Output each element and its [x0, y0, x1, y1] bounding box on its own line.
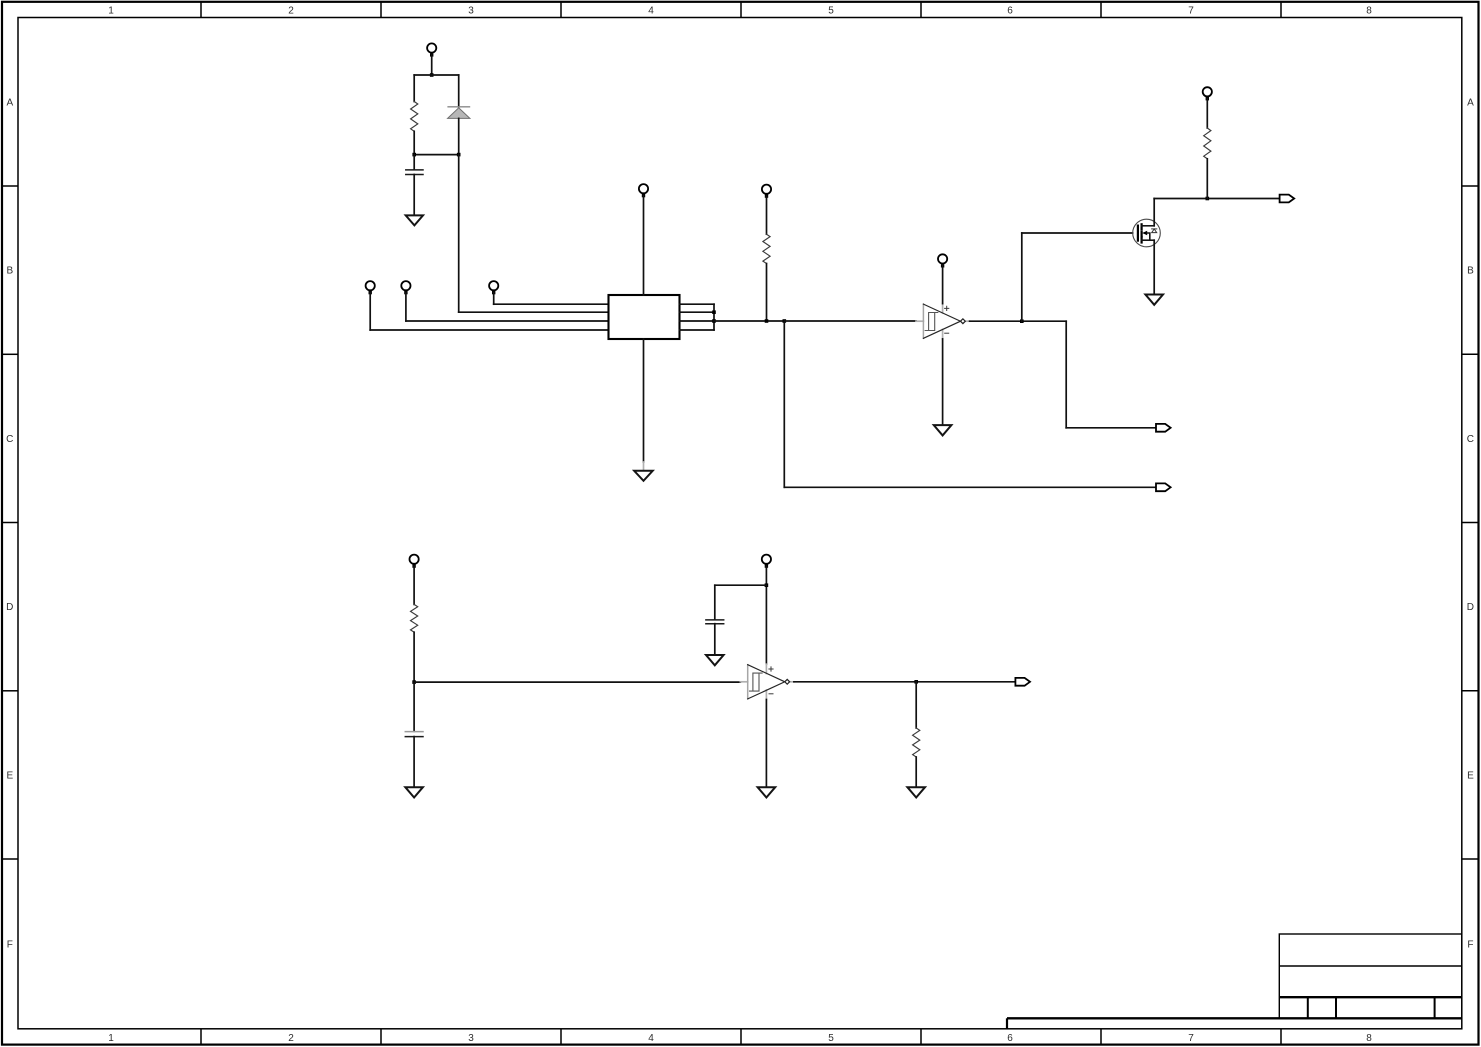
svg-text:8: 8: [1366, 1033, 1372, 1044]
wire P1 down: [431, 55, 433, 75]
node junction top: [430, 73, 434, 77]
zone row tick marks right: [1462, 186, 1479, 859]
wire divider to U3 input: [414, 681, 740, 683]
port P3 (second input): [401, 281, 410, 294]
svg-text:A: A: [6, 97, 13, 108]
svg-text:C: C: [1467, 434, 1474, 445]
diode D1 (zener, anode up): [448, 107, 470, 119]
wire to capacitor C1: [413, 155, 415, 170]
wire U3 output: [794, 681, 1016, 683]
wire P5 to U1 top pin: [643, 196, 645, 296]
svg-text:D: D: [6, 602, 13, 613]
wire P3 down: [405, 293, 407, 322]
wire P7 down: [1206, 99, 1208, 128]
wire U2 output: [970, 320, 1067, 322]
wire P2 down: [369, 293, 371, 331]
pin U3 V+: [765, 664, 767, 673]
U3 hysteresis symbol: [750, 673, 763, 691]
svg-text:4: 4: [648, 1033, 654, 1044]
port P4 (third input): [489, 281, 498, 294]
port P1 (top left supply): [427, 43, 436, 56]
resistor R1: [411, 102, 418, 132]
zone column labels bottom: [108, 1033, 1372, 1044]
pin U3 input: [740, 681, 747, 683]
node junction output load: [914, 680, 918, 684]
resistor R2 (pull-up): [1204, 128, 1211, 159]
wire decouple down: [714, 585, 716, 619]
title block: [1007, 934, 1462, 1029]
zone column tick marks bottom: [201, 1029, 1281, 1045]
pin U2 V+: [942, 304, 944, 313]
svg-text:1: 1: [108, 1033, 114, 1044]
pin U3 V-: [765, 690, 767, 699]
wire P10 down: [766, 196, 768, 234]
output port POUT4: [1015, 678, 1030, 686]
svg-text:5: 5: [828, 5, 834, 16]
wire R3 to node: [413, 632, 415, 682]
output port POUT2: [1156, 424, 1171, 432]
pin U3 output stub: [790, 681, 794, 683]
output port POUT1: [1156, 483, 1171, 491]
node junction decouple: [765, 583, 769, 587]
svg-text:6: 6: [1007, 5, 1013, 16]
U3 minus label: [769, 693, 773, 695]
U3 triangle left edge: [747, 665, 749, 699]
pin U2 input: [916, 320, 923, 322]
zone row tick marks left: [2, 186, 18, 859]
node junction left: [412, 153, 416, 157]
node junction right: [457, 153, 461, 157]
svg-text:1: 1: [108, 5, 114, 16]
wire P3 to U1 pin 3: [406, 320, 609, 322]
wire down to output level: [1065, 321, 1067, 428]
wire top horizontal: [414, 74, 459, 76]
wire to comparator input: [784, 320, 916, 322]
wire R2 down to drain net: [1206, 159, 1208, 199]
zone row labels left: [6, 97, 13, 950]
port P2 (leftmost input): [366, 281, 375, 294]
svg-text:2: 2: [288, 1033, 294, 1044]
Q1 gate bar: [1137, 226, 1139, 241]
U2 output diamond: [961, 319, 966, 324]
U2 triangle left edge: [922, 304, 924, 338]
svg-text:7: 7: [1188, 1033, 1194, 1044]
wire U1 right pin 1: [680, 303, 715, 305]
wire diode branch to U1 pin 2: [459, 311, 609, 313]
port P8 (bottom divider supply): [410, 555, 419, 568]
ground GND8: [907, 787, 925, 797]
wire U1 right pin 2: [680, 311, 715, 313]
Q1 body link: [1147, 233, 1150, 240]
wire left branch upper: [413, 75, 415, 102]
svg-text:4: 4: [648, 5, 654, 16]
U2 minus label: [945, 332, 949, 334]
Q1 body diode: [1152, 229, 1157, 233]
svg-text:C: C: [6, 434, 13, 445]
Q1 body circle: [1133, 219, 1161, 247]
wire to Q1 gate: [1022, 232, 1133, 234]
wire U1 right pin 4: [680, 329, 715, 331]
node junction pull-up: [765, 319, 769, 323]
wire U1 right pin 3: [680, 320, 715, 322]
capacitor C2: [405, 732, 423, 737]
capacitor C3: [706, 620, 724, 624]
Q1 source link: [1141, 239, 1154, 241]
wire right branch lower: [458, 118, 460, 154]
pin U2 output stub: [965, 320, 969, 322]
wire R5 down to net: [766, 264, 768, 322]
port P9 (U3 supply): [762, 555, 771, 568]
node junction tie B: [712, 319, 716, 323]
U3 plus label: [769, 667, 773, 671]
node junction tie A: [712, 310, 716, 314]
op-amp U3: [740, 664, 794, 699]
IC U1: [609, 295, 680, 339]
wire left branch lower: [413, 131, 415, 154]
resistor R4 (load): [913, 728, 920, 757]
wire decouple horizontal: [715, 584, 767, 586]
capacitor C1: [406, 170, 423, 175]
wire C1 to ground: [413, 175, 415, 216]
svg-text:5: 5: [828, 1033, 834, 1044]
wire Q1 drain up: [1153, 199, 1155, 226]
svg-text:E: E: [6, 770, 13, 781]
svg-text:A: A: [1467, 97, 1474, 108]
zone column tick marks top: [201, 2, 1281, 18]
wire right tie vertical: [713, 304, 715, 330]
U2 triangle body: [923, 304, 960, 338]
wire R4 to ground: [915, 757, 917, 787]
svg-text:F: F: [1467, 939, 1473, 950]
wire drain level horizontal: [1154, 198, 1279, 200]
svg-text:E: E: [1467, 770, 1474, 781]
wire up to gate level: [1021, 233, 1023, 321]
wire C3 to ground: [714, 624, 716, 655]
wire P4 down: [493, 293, 495, 305]
pin stub U1 gnd: [643, 462, 645, 471]
pin U2 V-: [942, 330, 944, 339]
output port POUT3: [1280, 195, 1295, 203]
wire P2 to U1 pin 4: [370, 329, 608, 331]
wire U2 V- to ground: [942, 339, 944, 425]
transistor Q1 (NMOS): [1133, 219, 1161, 247]
wire bottom output net: [784, 486, 1156, 488]
svg-text:B: B: [1467, 266, 1474, 277]
ground GND3: [934, 425, 952, 435]
Q1 channel segments: [1140, 224, 1142, 242]
port P6 (U2 supply): [938, 254, 947, 267]
comparator U2: [916, 304, 970, 339]
wire diode branch long vertical: [458, 155, 460, 313]
wire P9 down: [765, 566, 767, 664]
U3 output diamond: [785, 679, 790, 684]
wire Q1 source down: [1153, 240, 1155, 294]
resistor R3: [411, 604, 418, 632]
node junction divider: [412, 680, 416, 684]
svg-text:3: 3: [468, 1033, 474, 1044]
svg-text:3: 3: [468, 5, 474, 16]
svg-text:7: 7: [1188, 5, 1194, 16]
node junction gate net: [1020, 319, 1024, 323]
svg-text:F: F: [7, 939, 13, 950]
port P7 (pull-up supply): [1203, 87, 1212, 100]
Q1 body arrow: [1142, 231, 1147, 236]
wire C2 to ground: [413, 737, 415, 787]
ground GND1: [406, 215, 423, 225]
port P5 (U1 top supply): [639, 184, 648, 197]
U3 triangle body: [748, 665, 785, 699]
ground GND2: [634, 471, 653, 481]
ground GND5: [405, 787, 423, 797]
svg-text:2: 2: [288, 5, 294, 16]
ground GND7: [758, 787, 776, 797]
wire net out of U1: [714, 320, 784, 322]
wire node down to C2: [413, 682, 415, 731]
ground GND6: [706, 655, 724, 665]
wire P6 down to U2: [942, 266, 944, 304]
wire U3 V- to ground: [765, 700, 767, 788]
wire load down: [915, 682, 917, 728]
wire P4 to U1 pin 1: [494, 303, 609, 305]
node junction drain/resistor: [1206, 197, 1210, 201]
zone row labels right: [1467, 97, 1474, 950]
node junction feedback: [783, 319, 787, 323]
wire P8 down: [413, 566, 415, 604]
wire right branch upper: [458, 75, 460, 107]
zone column labels top: [108, 5, 1372, 16]
svg-text:D: D: [1467, 602, 1474, 613]
wire down to bottom output net: [783, 321, 785, 487]
svg-text:B: B: [6, 266, 13, 277]
svg-text:8: 8: [1366, 5, 1372, 16]
U2 plus label: [945, 306, 949, 310]
resistor R5 (mid pull-up): [763, 234, 770, 263]
wire bottom horizontal: [414, 154, 459, 156]
U2 hysteresis symbol: [925, 313, 938, 331]
Q1 drain link: [1141, 225, 1154, 227]
port P10 (pull-up supply mid): [762, 185, 771, 198]
ground GND4: [1145, 295, 1163, 305]
svg-text:6: 6: [1007, 1033, 1013, 1044]
wire to output port 2: [1066, 427, 1156, 429]
wire U1 bottom pin: [643, 339, 645, 462]
